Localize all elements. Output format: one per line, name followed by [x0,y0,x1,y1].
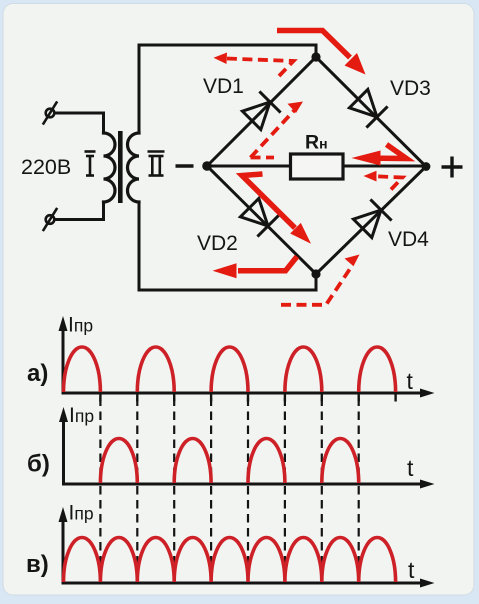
svg-text:в): в) [26,551,49,578]
red solid arrow bottom rail [238,257,297,271]
red dashed arrow near Rн (small) [374,176,403,189]
plot v axes [62,521,422,585]
wire resistor to right node [343,165,424,168]
plot a waveform (half-wave pulses) [64,347,396,392]
plot v waveform (full-wave pulses) [64,538,396,583]
svg-text:Rн: Rн [305,132,328,154]
wire primary bottom [55,202,104,220]
minus terminal [176,164,194,167]
winding I label [85,152,96,176]
svg-text:VD4: VD4 [388,228,429,251]
bridge diamond wires [207,57,426,274]
red solid arrow top (current path half-cycle 1) [277,31,350,58]
diode VD2 [240,198,278,236]
node top [311,52,320,61]
plot a: axes [62,330,422,395]
plot b axes [62,421,421,486]
plot a ticks [100,393,395,402]
terminal bottom (phase symbol) [44,209,57,230]
wire secondary top to bridge [139,45,316,133]
red dashed arrow top-left (half-cycle 2) [224,58,294,76]
svg-text:VD2: VD2 [197,232,238,255]
transformer secondary winding [128,133,139,202]
dashed separators between plot b and v [100,486,358,583]
red dashed arrow along VD1 branch [251,109,297,158]
transformer primary winding [104,133,116,202]
svg-text:Iпр: Iпр [69,502,94,525]
svg-text:Iпр: Iпр [69,404,94,427]
dashed separators between plot a and b [100,398,358,485]
wire left node to resistor [209,165,291,168]
svg-text:VD3: VD3 [390,77,431,100]
svg-text:t: t [407,368,414,394]
terminal top (phase symbol) [44,103,57,124]
svg-text:а): а) [27,360,48,387]
plot b waveform (shifted pulses) [100,438,358,483]
svg-text:б): б) [27,451,50,478]
red dashed arrow bottom to VD4 branch [281,265,353,305]
node left [202,161,212,171]
svg-text:220В: 220В [21,155,71,179]
diode VD4 [353,199,391,237]
diode VD1 [242,91,280,129]
wire primary top [55,113,104,133]
svg-text:VD1: VD1 [203,75,244,98]
svg-text:Iпр: Iпр [68,314,93,337]
svg-text:t: t [408,557,415,583]
plus terminal [442,157,463,178]
red solid arrow along VD2 branch [242,174,295,228]
resistor Rн [291,154,344,179]
winding II label [148,152,165,176]
wire secondary bottom to bridge [139,202,316,290]
node bottom [311,269,320,278]
node right [422,162,431,171]
diode VD3 [349,89,387,127]
transformer core [118,131,123,203]
svg-text:t: t [407,455,414,481]
red solid arrow through Rн (right) [380,145,407,159]
